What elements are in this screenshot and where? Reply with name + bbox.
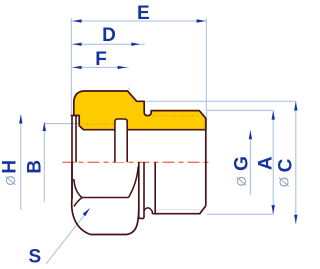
arrow D left [73, 43, 82, 46]
dimension H line [20, 115, 22, 211]
extension line right (part right face) [205, 18, 207, 118]
nut silhouette (bottom half) [72, 162, 139, 235]
nut right inner line [143, 162, 145, 218]
dimension F line [71, 66, 129, 68]
svg-text:G: G [232, 156, 253, 171]
arrow F right [118, 66, 127, 69]
arrow C up [294, 102, 297, 111]
dimension C line [295, 101, 297, 224]
arrow E left [73, 19, 82, 22]
arrow C down [294, 215, 297, 224]
dimension E line [71, 20, 206, 22]
arrow D right [131, 43, 140, 46]
svg-text:E: E [137, 3, 150, 24]
part right edge [205, 118, 207, 206]
hex face line [82, 197, 129, 199]
C top extension [146, 100, 296, 102]
thread minor light line (bottom) [156, 209, 201, 211]
thread start line (bottom) [154, 162, 156, 214]
svg-text:C: C [276, 158, 297, 172]
nut washer ledge [139, 217, 144, 219]
arrow F left [73, 66, 82, 69]
thread minor dotted line (male, top) [152, 115, 199, 117]
arrow A down [272, 205, 275, 214]
F extension tick [128, 88, 130, 91]
svg-text:D: D [102, 25, 116, 46]
arrow E right [197, 19, 206, 22]
A bottom extension [207, 213, 273, 215]
dimension A line [272, 110, 274, 214]
hex chamfer arc right [129, 167, 139, 198]
arrow S [83, 208, 90, 216]
hex vertex diagonal [74, 198, 82, 207]
nut yellow section body [74, 91, 206, 130]
dimension D line [71, 43, 145, 45]
arrow A up [272, 111, 275, 120]
arrow H up [19, 115, 22, 124]
svg-text:Ø: Ø [277, 177, 292, 187]
arrow B up [43, 122, 46, 131]
svg-text:Ø: Ø [3, 176, 18, 186]
hex chamfer arc left [74, 179, 82, 198]
svg-text:S: S [28, 246, 41, 267]
dimension G line [249, 130, 251, 195]
thread minor dotted line (nut, top) [79, 123, 115, 125]
svg-text:B: B [25, 160, 46, 174]
svg-text:A: A [256, 156, 277, 170]
arrow G up [249, 130, 252, 139]
sleeve step line [71, 115, 80, 117]
thread bottom edge [152, 206, 206, 214]
A top extension [207, 109, 273, 111]
extension line left (sleeve face) [70, 18, 72, 115]
thread relief dome (bottom) [144, 208, 152, 214]
S leader line [46, 209, 90, 265]
svg-text:F: F [95, 49, 107, 70]
B extension line [44, 123, 79, 125]
centerline [63, 161, 209, 163]
dimension B line [43, 122, 45, 202]
nut slot (white) [115, 119, 127, 162]
svg-text:H: H [0, 160, 21, 174]
sleeve inner wall [75, 116, 77, 163]
svg-text:Ø: Ø [234, 176, 249, 186]
sleeve outer wall [71, 116, 73, 199]
nut right edge lower [138, 205, 140, 218]
